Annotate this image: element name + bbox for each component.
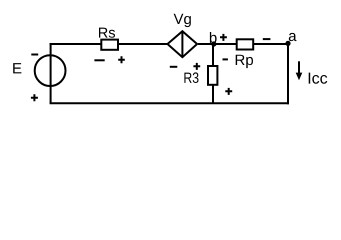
plus sign of Vg [193, 63, 200, 70]
wire top rail left: E to Rs [50, 43, 102, 45]
plus sign of R3 [225, 88, 232, 95]
wire bottom rail [50, 102, 289, 104]
voltage source E [35, 43, 66, 103]
label R3 [184, 72, 198, 83]
node b junction dot [211, 41, 216, 46]
label Rp [236, 55, 253, 68]
resistor R3 [208, 66, 217, 85]
dependent source Vg (diamond) [168, 31, 198, 57]
label Rs [99, 28, 115, 38]
minus sign of Rs [94, 59, 104, 61]
label Vg [174, 14, 191, 27]
label node b [210, 32, 217, 43]
label E [13, 63, 21, 73]
minus sign of E [31, 54, 38, 56]
plus sign of E [31, 94, 38, 101]
resistor Rp [237, 39, 254, 49]
wire top rail: Rs to Vg [118, 43, 167, 45]
label node a [289, 33, 297, 41]
wire right branch a down [287, 43, 289, 104]
minus sign of R3 [223, 58, 228, 60]
resistor Rs [101, 40, 118, 50]
wire top rail: Rp to node a [253, 43, 289, 45]
wire R3 branch vertical [212, 44, 214, 103]
current arrow Icc [296, 61, 303, 80]
node a junction dot [285, 41, 290, 46]
plus sign of Rs [118, 56, 125, 63]
wire top rail: Vg to node b to Rp [198, 43, 237, 45]
minus sign of Rp [263, 38, 271, 40]
label Icc [309, 73, 328, 84]
minus sign of Vg [170, 66, 178, 68]
plus sign at node b (Rp left) [220, 34, 227, 41]
